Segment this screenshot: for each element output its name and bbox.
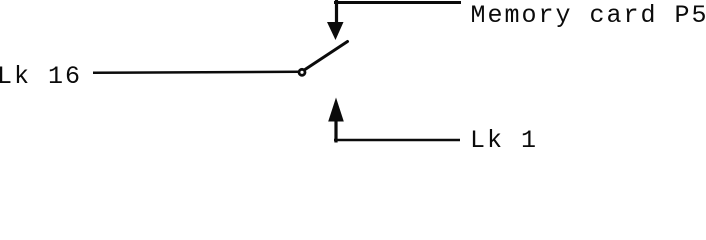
- wire from Lk 16: [93, 72, 299, 73]
- arrow up (to switch): [328, 98, 344, 122]
- switch lever SW1: [305, 42, 348, 70]
- wire vertical stem bottom: [334, 121, 337, 143]
- wire top horizontal to Memory card P5: [334, 1, 461, 4]
- wire bottom horizontal to Lk 1: [334, 139, 460, 142]
- label Memory card P5: [471, 1, 706, 30]
- label Lk 1: [470, 126, 538, 155]
- label Lk 16: [0, 62, 82, 91]
- switch pivot node: [299, 69, 305, 75]
- arrow down (to switch): [327, 22, 344, 40]
- wire vertical stem from top: [335, 0, 338, 25]
